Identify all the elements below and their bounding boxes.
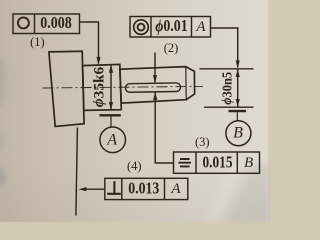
- svg-text:0.013: 0.013: [128, 178, 159, 197]
- svg-text:(3): (3): [195, 135, 210, 149]
- svg-text:ϕ0.01: ϕ0.01: [155, 16, 188, 35]
- svg-text:A: A: [106, 131, 117, 148]
- svg-text:A: A: [195, 19, 206, 35]
- svg-text:(1): (1): [30, 35, 45, 49]
- svg-text:A: A: [170, 181, 181, 197]
- svg-text:ϕ35k6: ϕ35k6: [92, 66, 108, 107]
- svg-text:ϕ30n5: ϕ30n5: [220, 72, 235, 105]
- svg-text:0.008: 0.008: [40, 13, 72, 32]
- svg-text:B: B: [244, 155, 253, 171]
- svg-text:(2): (2): [164, 41, 179, 55]
- svg-text:B: B: [233, 125, 243, 142]
- svg-text:(4): (4): [127, 159, 142, 173]
- svg-text:0.015: 0.015: [203, 152, 233, 171]
